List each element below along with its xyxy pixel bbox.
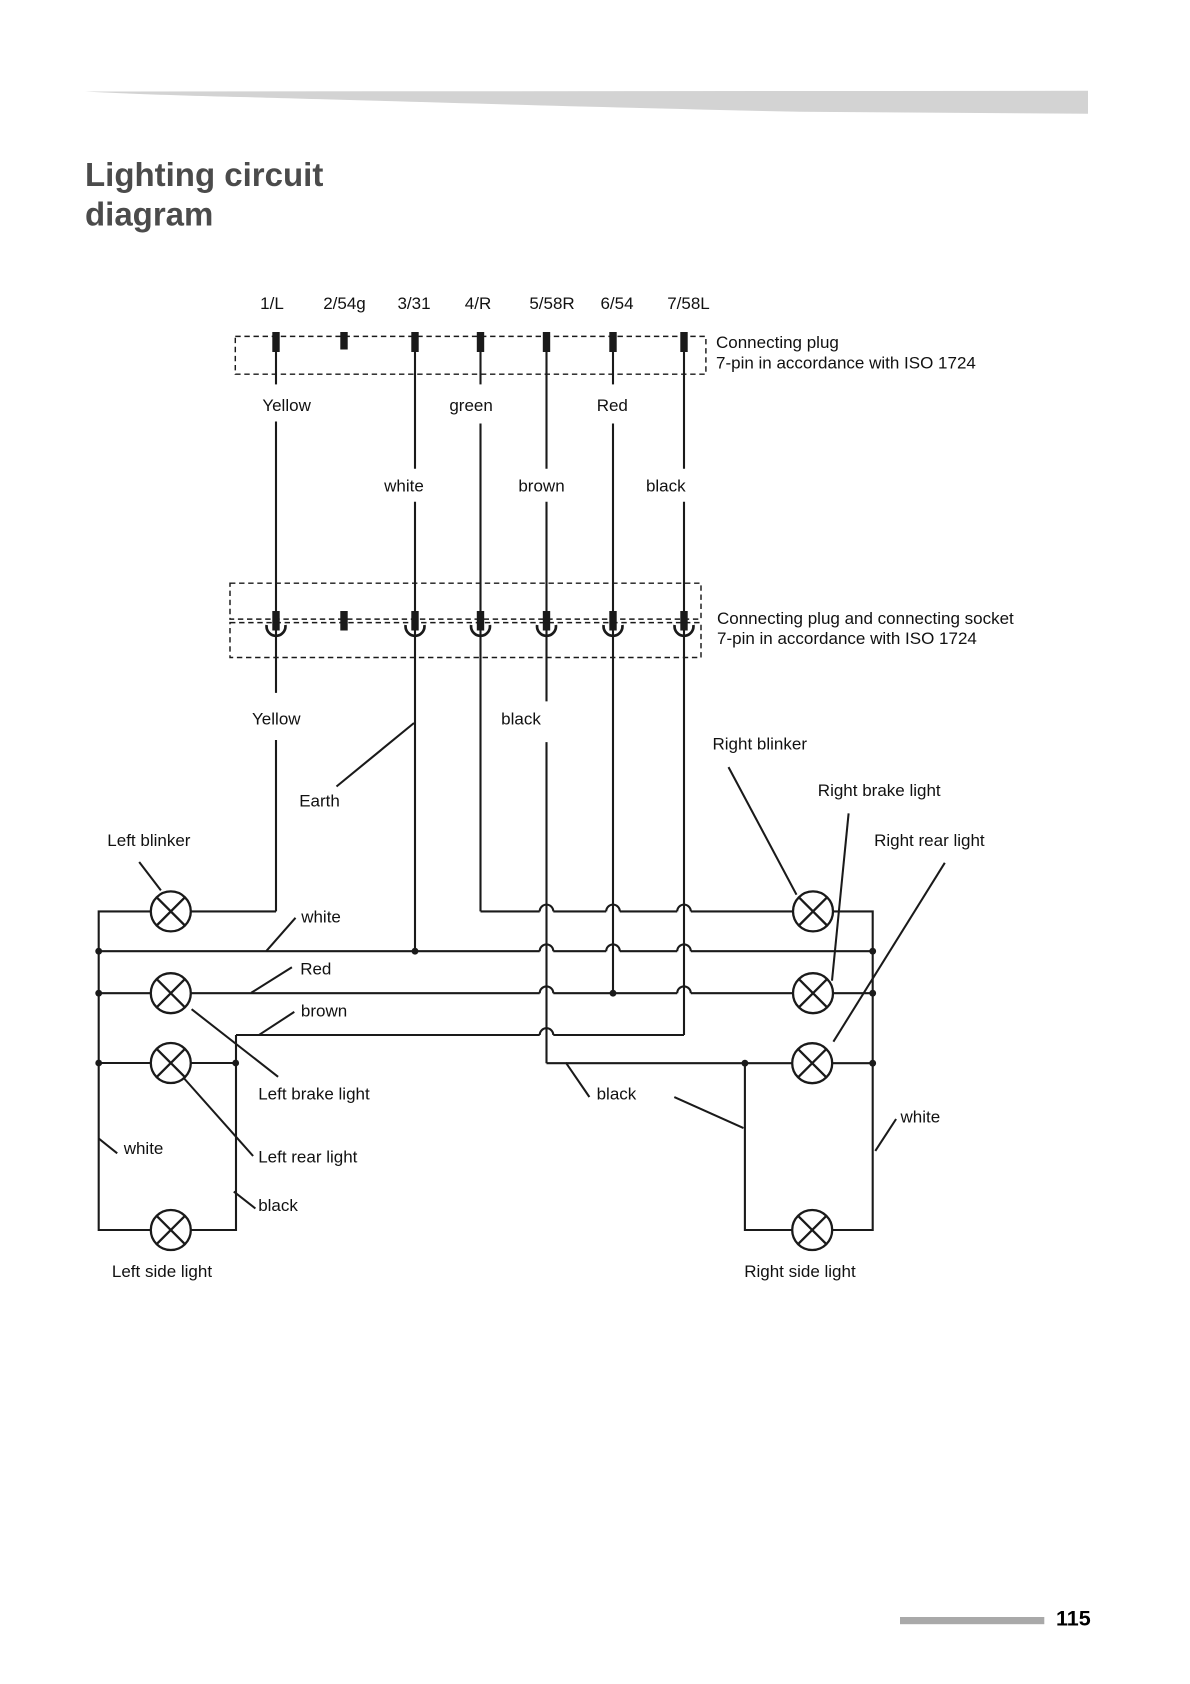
svg-text:5/58R: 5/58R [529,294,574,313]
svg-text:Lighting circuit: Lighting circuit [85,156,323,193]
leader Earth to wire 3 [337,723,415,787]
wire green to right blinker (hops 5,6,7) [481,905,794,912]
wire 1/L yellow (upper) [275,352,277,384]
svg-text:brown: brown [301,1001,347,1020]
svg-text:green: green [449,396,492,415]
svg-text:Yellow: Yellow [262,396,311,415]
leader black to left riser [234,1192,256,1209]
svg-text:black: black [646,477,686,496]
socket pin 4/R [477,611,484,631]
black riser to left side light [191,1035,236,1230]
leader black to wire corner [566,1063,590,1097]
wire 4/R green (upper) [479,352,481,384]
svg-text:3/31: 3/31 [397,294,430,313]
svg-text:black: black [501,710,541,729]
socket pin 1/L [272,611,279,631]
svg-text:white: white [123,1139,164,1158]
svg-text:7-pin in accordance with ISO 1: 7-pin in accordance with ISO 1724 [716,354,976,373]
wire 7/58L black (upper) [683,352,685,469]
leader brown to wire [259,1012,294,1035]
svg-text:1/L: 1/L [260,294,284,313]
junction red wire / red bus [610,990,617,997]
svg-text:7-pin in accordance with ISO 1: 7-pin in accordance with ISO 1724 [717,629,977,648]
junction brown wire / side light riser [742,1060,749,1067]
junction black riser / left rear lamp [232,1060,239,1067]
lamp left side light [151,1210,191,1250]
footer rule [900,1617,1044,1624]
svg-text:Right brake light: Right brake light [818,781,941,800]
junction left bus / red bus [95,990,102,997]
lamp left blinker [151,891,191,931]
socket pin 2/54g [340,611,347,631]
header banner swoosh [85,91,1088,114]
plug pin 7/58L [680,332,687,352]
svg-text:diagram: diagram [85,196,213,233]
wire left bus to left brake lamp [99,992,151,994]
leader Left rear light to lamp [184,1079,253,1157]
leader Red to bus [251,967,292,993]
junction left bus / white bus [95,948,102,955]
plug pin 2/54g [340,332,347,350]
leader white to bus [266,918,295,951]
socket pin 5/58R [543,611,550,631]
svg-text:white: white [900,1107,941,1126]
wire right side lamp to right bus [832,1229,873,1231]
svg-text:Connecting plug and connecting: Connecting plug and connecting socket [717,609,1014,628]
wire 1/L yellow (lower) [275,740,277,911]
junction earth wire / white bus [412,948,419,955]
wire right rear lamp to right bus [832,1062,873,1064]
wire left bus to left rear lamp [99,1062,151,1064]
wire 3/31 white (upper) [414,352,416,469]
red brake bus (hops 5,7) [191,986,793,993]
wire 1/L yellow (middle) [275,422,277,693]
socket pin 7/58L [680,611,687,631]
socket pin 3/31 [411,611,418,631]
socket contact arc 5/58R [537,625,556,636]
leader Right rear light to lamp [833,863,944,1042]
junction right bus / red bus [869,990,876,997]
svg-text:brown: brown [518,477,564,496]
socket contact arc 3/31 [406,625,425,636]
wire 6/54 red (upper) [612,352,614,384]
lamp left brake light [151,973,191,1013]
wire right blinker to right bus [833,910,851,912]
wire 3/31 white earth (lower) [414,502,416,952]
svg-text:115: 115 [1056,1607,1091,1631]
lamp left rear light [151,1043,191,1083]
connecting plug half (dashed outline upper) [230,583,701,619]
lamp right rear light [792,1043,832,1083]
right return bus (white) [832,911,873,1230]
svg-text:6/54: 6/54 [600,294,633,313]
socket pin 6/54 [609,611,616,631]
wire 5/58R brown (lower) [545,742,547,1063]
brown wire to right rear lamp [547,1062,793,1064]
left return bus (white) [99,911,151,1230]
svg-text:Left side light: Left side light [112,1262,212,1281]
svg-text:white: white [383,477,424,496]
connecting plug (7-pin, dashed outline) [235,336,706,374]
wire 7/58L black (lower) [683,502,685,1035]
socket contact arc 7/58L [675,625,694,636]
wire 5/58R brown (middle) [545,502,547,702]
plug pin 1/L [272,332,279,352]
socket contact arc 1/L [267,625,286,636]
connecting socket half (dashed outline lower) [230,623,701,658]
leader white to left bus [99,1139,117,1154]
leader Left blinker to lamp [139,862,161,890]
svg-text:4/R: 4/R [465,294,491,313]
socket contact arc 6/54 [604,625,623,636]
svg-text:Left brake light: Left brake light [258,1084,370,1103]
svg-text:Right blinker: Right blinker [713,734,808,753]
leader Right brake light to lamp [832,813,849,980]
lamp right blinker [793,891,833,931]
svg-text:white: white [300,907,341,926]
wire 6/54 red (lower) [612,424,614,994]
wire 4/R green (lower) [479,424,481,912]
plug pin 6/54 [609,332,616,352]
white earth bus (hops 5,6,7) [99,944,873,951]
plug pin 5/58R [543,332,550,352]
junction left bus / rear lamp row [95,1060,102,1067]
leader black to side light riser [674,1097,743,1128]
svg-text:Yellow: Yellow [252,710,301,729]
svg-text:Right rear light: Right rear light [874,831,985,850]
junction right bus / brown wire [869,1060,876,1067]
svg-text:black: black [597,1084,637,1103]
leader Left brake light to lamp [192,1009,279,1077]
wire lamp left blinker to yellow wire [191,910,276,912]
socket contact arc 4/R [471,625,490,636]
wire left rear lamp to black riser [191,1062,236,1064]
svg-text:Red: Red [300,959,331,978]
svg-text:black: black [258,1196,298,1215]
svg-text:Connecting plug: Connecting plug [716,333,839,352]
svg-text:Red: Red [597,396,628,415]
wire right brake lamp to right bus [833,992,873,994]
black wire run (hop 5) [236,1028,684,1035]
leader Right blinker to lamp [729,767,797,895]
svg-text:2/54g: 2/54g [323,294,366,313]
svg-text:Left blinker: Left blinker [107,831,190,850]
brown riser to right side light [745,1063,792,1230]
lamp right brake light [793,973,833,1013]
plug pin 3/31 [411,332,418,352]
lamp right side light [792,1210,832,1250]
svg-text:7/58L: 7/58L [667,294,710,313]
svg-text:Earth: Earth [299,792,340,811]
junction right bus / white bus [869,948,876,955]
svg-text:Left rear light: Left rear light [258,1148,357,1167]
leader white to right bus [875,1119,896,1151]
plug pin 4/R [477,332,484,352]
svg-text:Right side light: Right side light [744,1262,856,1281]
wire 5/58R brown (upper) [545,352,547,469]
